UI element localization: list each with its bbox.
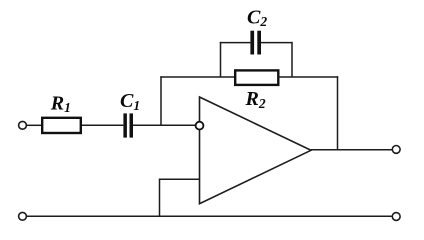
op-amp U1 triangle: [200, 97, 312, 204]
wire ground rail (bottom): [26, 215, 392, 217]
wire C2 top right segment: [261, 42, 293, 44]
resistor R2: [235, 70, 278, 85]
svg-text:C1: C1: [120, 90, 140, 113]
resistor R1: [42, 118, 81, 133]
wire C2 branch left vertical: [220, 42, 222, 77]
output terminal (right, signal out): [392, 146, 400, 154]
svg-text:R2: R2: [245, 88, 266, 111]
svg-text:C2: C2: [247, 7, 267, 30]
wire feedback right vertical down to output: [337, 76, 339, 150]
wire feedback rail left segment (to R2): [160, 76, 236, 78]
wire R1 to C1: [82, 124, 123, 126]
op-amp inverting input node (open circle): [196, 122, 204, 130]
wire feedback rail right segment (R2 to output): [278, 76, 338, 78]
svg-text:R1: R1: [50, 93, 71, 116]
wire non-inverting input to ground rail: [160, 179, 200, 216]
input terminal (left, signal in): [19, 121, 27, 129]
ground rail right terminal: [392, 213, 400, 221]
capacitor C1: [123, 113, 133, 137]
capacitor C2: [250, 31, 261, 55]
wire op-amp output: [311, 149, 393, 151]
wire C2 branch right vertical: [291, 42, 293, 77]
wire input terminal to R1: [26, 124, 42, 126]
wire feedback left vertical (junction at input node up to feedback rail): [160, 76, 162, 125]
wire C2 top left segment: [220, 42, 251, 44]
ground rail left terminal: [19, 212, 27, 220]
wire C1 to op-amp input node: [133, 124, 200, 126]
